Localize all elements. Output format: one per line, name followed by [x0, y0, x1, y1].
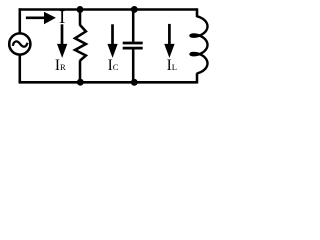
- node dot bottom C: [131, 79, 138, 86]
- node dot top C: [131, 6, 138, 13]
- current arrow IR: [61, 24, 64, 45]
- wire left upper: [19, 8, 22, 33]
- AC sine symbol: [13, 41, 28, 46]
- svg-text:IL: IL: [167, 57, 177, 74]
- wire right upper: [196, 8, 199, 17]
- wire R branch upper: [79, 10, 82, 26]
- capacitor C plate bottom: [123, 47, 143, 50]
- capacitor C plate top: [123, 42, 143, 45]
- wire bottom: [19, 81, 197, 84]
- node dot top R: [77, 6, 84, 13]
- svg-text:IC: IC: [108, 57, 119, 74]
- wire left lower: [19, 54, 22, 83]
- current arrow I (top): [26, 17, 45, 20]
- wire R branch lower: [79, 60, 82, 82]
- AC source V1: [9, 33, 30, 54]
- current arrow IC: [111, 24, 114, 45]
- wire top: [19, 8, 197, 11]
- wire C branch lower: [132, 49, 135, 82]
- resistor R: [75, 25, 86, 61]
- wire C branch upper: [132, 10, 135, 42]
- wire right lower: [196, 73, 199, 83]
- node dot bottom R: [77, 79, 84, 86]
- svg-text:IR: IR: [55, 57, 66, 74]
- inductor L coil: [191, 16, 208, 73]
- current arrow IL: [168, 24, 171, 45]
